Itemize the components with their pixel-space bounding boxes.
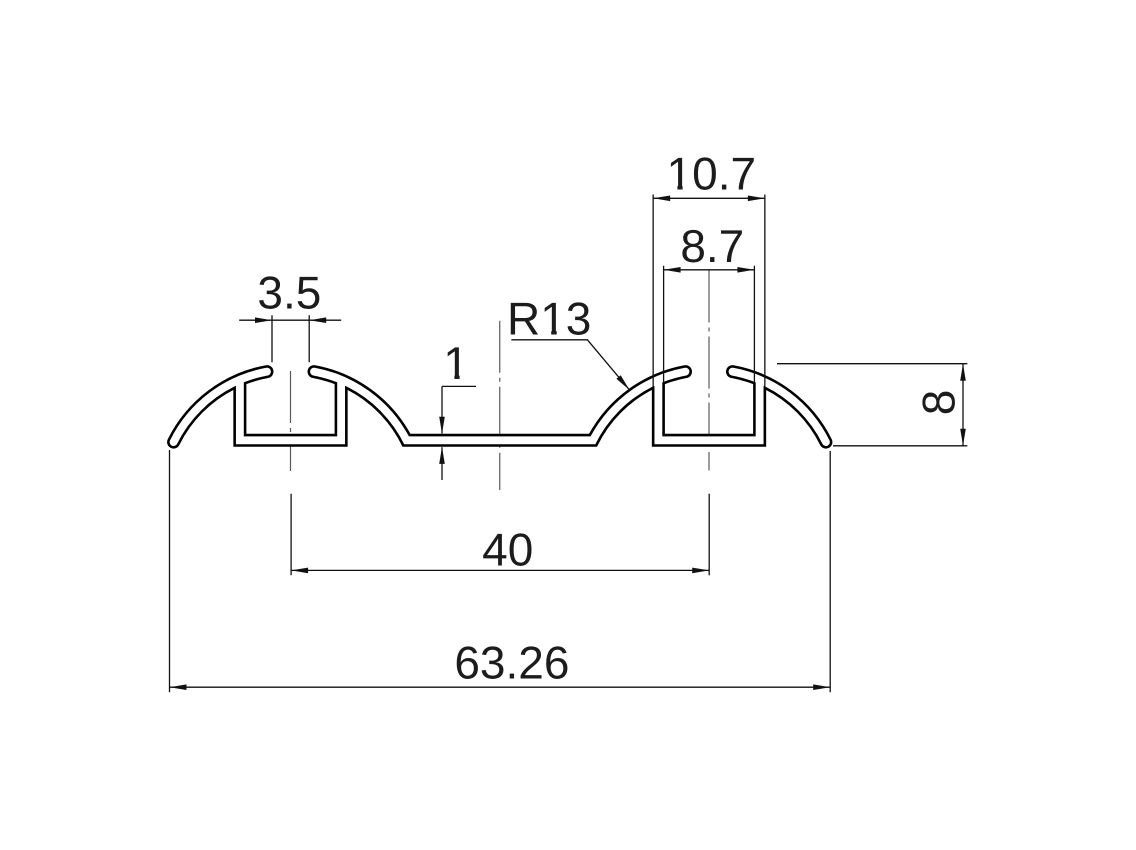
svg-text:63.26: 63.26 [454,637,569,689]
dim 1 lower leader line [441,447,443,480]
profile outline [168,366,831,447]
leader R13 arrow [616,375,629,390]
dim 40 dimension line [291,569,709,571]
dim 3.5 dimension line [239,319,341,321]
centerline right slot [708,271,710,447]
leader R13 underline [511,340,629,390]
svg-text:10.7: 10.7 [667,147,757,199]
dim 3.5 extension lines [272,315,309,362]
svg-text:8: 8 [913,390,965,416]
dim 8 bottom extension line [833,445,967,447]
svg-text:1: 1 [443,337,469,389]
dim 8 dimension line [962,364,964,446]
dim 40 arrows [291,568,308,574]
dim 40 extension lines [291,494,709,576]
dim 10.7 arrows [653,196,670,202]
centerline right slot lower dash [708,452,710,471]
dim 8.7 arrows [664,267,681,273]
dim 63.26 extension lines [170,450,831,692]
dim 63.26 dimension line [170,686,831,688]
dim 1 upper leader line [442,386,476,433]
centerline middle [499,321,501,490]
dim 8 top extension line [777,363,967,365]
centerline left slot [290,371,292,471]
dim 10.7 extension lines [653,195,765,388]
svg-text:8.7: 8.7 [680,220,744,272]
svg-text:R13: R13 [507,293,591,345]
glyph foot masks for digit 1 [446,374,454,379]
dim 8 arrows [960,364,966,381]
dim 63.26 arrows [170,684,187,690]
dim 1 upper arrow [439,417,445,434]
dim 8.7 extension lines [664,266,755,383]
dim 10.7 dimension line [653,197,765,199]
dim 1 lower arrow [439,447,445,464]
svg-text:3.5: 3.5 [257,267,321,319]
dim 8.7 dimension line [664,269,755,271]
svg-text:40: 40 [482,523,533,575]
dim 3.5 arrows [255,317,272,323]
